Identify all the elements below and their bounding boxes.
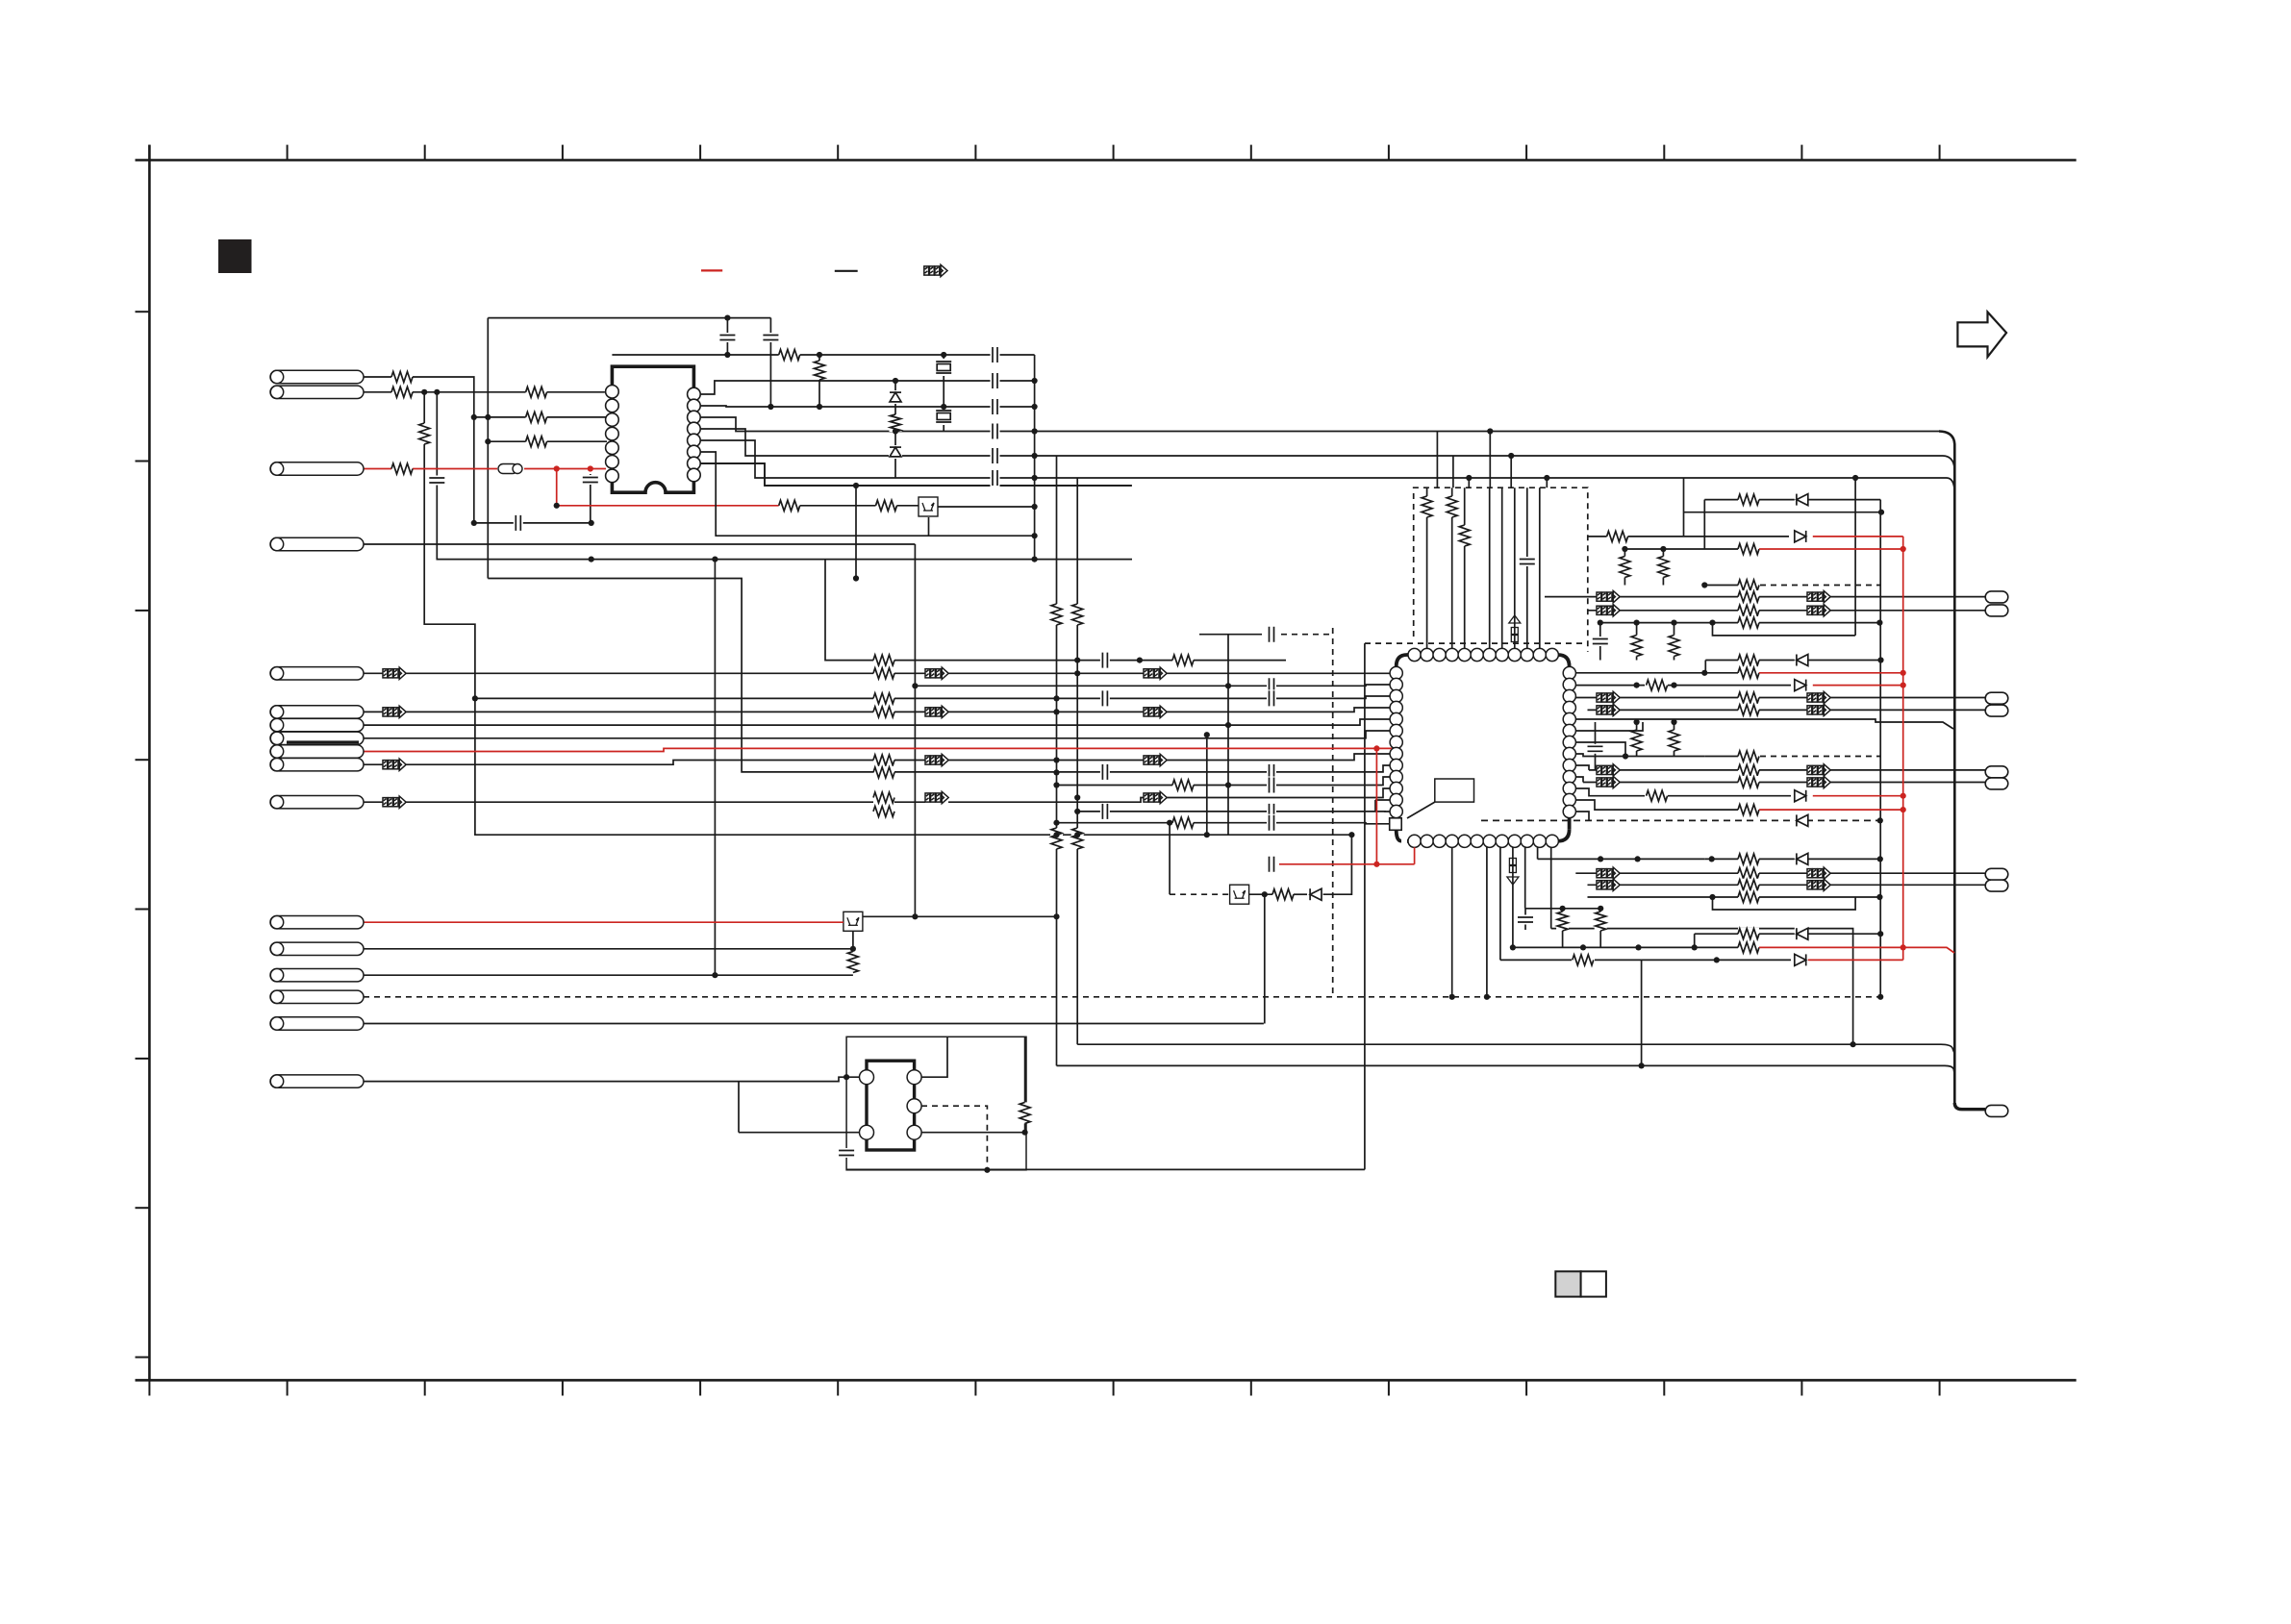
capacitor C16 [1587,744,1604,754]
resistor R51 [846,952,859,973]
wire [1813,685,1903,687]
wire [714,560,716,976]
wire [1588,884,1986,886]
wire [921,1037,947,1077]
wire [1332,628,1334,997]
wire [364,672,1392,674]
signal arrow A8 [1144,792,1167,803]
resistor R28 [1738,604,1759,616]
resistor R21 [1738,493,1759,506]
wire [1525,145,1527,161]
junction [1373,862,1379,867]
wire [136,1357,150,1359]
wire [364,921,843,923]
ic U2 left pins [1390,666,1402,817]
wire [436,559,438,561]
junction [471,414,477,420]
signal arrow A10 [925,707,948,717]
wire [488,440,607,442]
resistor R_B [391,386,413,398]
wire [1407,802,1435,818]
connector P9 [270,969,364,982]
wire [1575,765,1589,770]
capacitor C13 [1519,557,1536,566]
wire [1704,661,1706,673]
junction [1878,510,1884,515]
wire [1250,145,1252,161]
wire [818,355,820,407]
wire [1113,145,1115,161]
signal arrow down [1507,859,1519,886]
junction [434,389,440,395]
junction [724,315,730,321]
resistor R42 [1630,730,1643,751]
wire [1562,909,1564,948]
capacitor C10 [1267,803,1276,820]
wire [1024,1037,1026,1132]
wire [1513,946,1741,948]
wire [1704,585,1756,587]
wire [769,318,771,407]
junction [1635,944,1641,950]
resistor R17 [1446,496,1458,517]
wire [1249,893,1272,895]
junction [1901,793,1906,799]
wire [1703,500,1705,549]
wire [1464,487,1466,655]
junction [1623,753,1628,759]
diode D_a [889,390,902,404]
wire [136,909,150,911]
wire [437,392,1132,560]
signal arrow A6 [1144,707,1167,717]
capacitor C2 [1100,689,1110,707]
resistor R61 [890,414,902,432]
connector P12 [270,1075,364,1087]
signal arrow A26 [1807,868,1830,879]
resistor R4 [873,706,894,718]
wire [136,759,150,761]
junction [893,378,898,384]
wire [1551,929,1853,1045]
wire [1760,756,1880,758]
resistor R14 [1050,828,1063,849]
resistor R_C [391,462,413,475]
diode D6 [1795,813,1808,827]
wire [1250,1380,1252,1395]
capacitor Ca [718,333,736,342]
wire [700,463,1132,486]
connector P4 [270,667,364,680]
junction [1032,533,1038,538]
wire [1512,841,1514,948]
wire [1057,823,1390,824]
wire [1452,456,1454,487]
junction [1714,957,1720,962]
resistor R29 [1738,616,1759,629]
op-amp U1 right pins [688,387,701,482]
junction [485,414,491,420]
wire [1663,145,1665,161]
signal arrow A12 [925,792,948,803]
junction [421,389,427,395]
wire [1374,800,1376,812]
resistor R15 [1071,828,1084,849]
capacitor C4 [1100,803,1110,820]
wire [1575,800,1741,810]
resistor R5 [873,754,894,766]
capacitor C15 [1592,637,1609,646]
ic U3 body [867,1061,915,1150]
wire [1575,754,1704,757]
wire [364,1077,859,1081]
resistor R19 [1556,912,1569,931]
wire [1056,456,1058,1065]
wire [364,731,1392,738]
resistor R22 [1607,530,1628,542]
wire [837,145,839,161]
wire [1704,756,1756,758]
wire [1588,536,1790,537]
ic U2 top pins [1408,648,1558,661]
junction [941,404,946,410]
wire [1468,478,1470,487]
wire bus [1057,1065,1955,1075]
capacitor C1 [1100,652,1110,669]
capacitor C8 [1267,763,1276,781]
capacitor C14 [1517,915,1534,925]
wire [1034,355,1036,560]
junction [588,465,593,471]
connector P5c [270,732,364,744]
junction [1692,944,1698,950]
junction [1634,719,1640,725]
wire [921,1106,987,1170]
junction [1449,994,1455,1000]
capacitor C23 [991,423,1000,440]
resistor R39 [1738,776,1759,788]
junction [1074,832,1080,837]
signal arrow A20 [1807,705,1830,715]
signal arrow A15 [1597,605,1620,615]
wire [612,354,1034,356]
diode D7 [1795,852,1808,865]
wire [1489,487,1491,655]
junction [912,913,918,919]
red to rail [1903,947,1954,953]
wire [1704,858,1880,860]
connector P7 [270,916,364,929]
wire [1481,819,1756,821]
wire [424,145,426,161]
junction [817,352,822,358]
wire [474,522,592,524]
wire [1759,809,1903,811]
signal arrow A17 [1597,692,1620,703]
wire [1854,478,1856,636]
junction [1032,404,1038,410]
wire [1902,537,1904,961]
wire [837,1380,839,1395]
wire [136,1379,2077,1382]
junction [912,683,918,688]
wire [1524,841,1526,909]
diode D8 [1795,927,1808,940]
wire [488,317,770,319]
connector P1a [270,370,364,383]
signal arrow A19 [1597,705,1620,715]
wire [1451,841,1453,997]
junction [1348,832,1354,837]
junction [1901,670,1906,676]
wire [700,429,1943,456]
wire [1662,549,1664,586]
wire [1575,672,1741,674]
ic U2 body [1397,655,1570,841]
junction [1634,683,1640,688]
wire [136,1207,150,1209]
connector output pair 2 [1985,692,2008,704]
resistor R24 [1619,557,1631,578]
wire [1526,487,1528,655]
junction [1877,994,1883,1000]
wire output feed [1954,1103,1985,1110]
junction [1373,745,1379,751]
junction [1877,931,1883,937]
crystal X2 [935,408,952,425]
wire [1537,841,1539,860]
resistor R53 [779,499,800,512]
resistor R49 [1738,941,1759,954]
legend box white [1581,1271,1606,1296]
wire [1939,1380,1941,1395]
wire [1588,610,1986,612]
wire [1683,478,1685,537]
capacitor C6 [1267,677,1276,694]
junction [1053,820,1059,826]
wire [1674,623,1675,661]
junction [1032,428,1038,434]
wire [1364,643,1366,1169]
wire [1500,959,1572,961]
wire [1451,487,1453,655]
junction [712,557,718,562]
wire [1227,635,1229,836]
signal arrow A21 [1597,764,1620,775]
junction [853,483,859,488]
connector P2 [270,462,364,475]
ic U2 pin1 pad [1390,818,1402,831]
junction [1032,557,1038,562]
wire [1575,685,1645,687]
junction [1053,913,1059,919]
wire [590,474,592,523]
signal arrow A14 [1807,591,1830,602]
resistor R6 [873,766,894,779]
wire [1599,909,1601,948]
resistor R10 [1172,779,1194,791]
wire [700,452,1035,536]
junction [554,503,560,509]
wire [1486,841,1488,997]
junction [1901,546,1906,552]
junction [1701,670,1707,676]
wire [136,311,150,312]
junction [1580,944,1586,950]
wire [474,416,607,418]
junction [1074,794,1080,800]
crystal X1 [935,359,952,376]
resistor R62 [1019,1102,1031,1123]
wire [1575,872,1985,874]
capacitor C9 [1267,777,1276,794]
junction [485,438,491,444]
junction [724,352,730,358]
junction [1877,817,1883,823]
signal arrow A16 [1807,605,1830,615]
wire [1524,909,1526,930]
filter bead FB1 [497,463,524,475]
resistor R20 [1595,912,1607,931]
resistor R34 [1647,679,1668,691]
junction [1877,657,1883,662]
junction [893,428,898,434]
junction [1053,769,1059,775]
junction [768,404,773,410]
capacitor C5 [1267,626,1276,643]
wire [1813,536,1903,537]
wire bus [1077,1044,1954,1054]
resistor R18 [1458,525,1471,546]
wire [136,159,2077,162]
wire [1636,623,1638,661]
resistor R40 [1647,789,1668,802]
resistor R54 [876,499,897,512]
junction [941,352,946,358]
wire [364,996,1880,998]
wire [726,318,728,355]
wire [1414,847,1416,864]
junction [1053,709,1059,714]
junction [1225,722,1231,728]
junction [1598,620,1603,626]
wire [1101,765,1392,772]
junction [1484,994,1490,1000]
junction [1876,894,1882,900]
resistor R47 [1738,891,1759,904]
resistor R13 [1071,604,1084,625]
signal arrow A23 [1597,777,1620,787]
ic U3 pins [860,1070,922,1140]
connector output pair 3 [1985,766,2008,778]
wire [1624,549,1625,586]
junction [1510,944,1516,950]
diode D4 [1795,679,1808,692]
resistor R48 [1738,928,1759,940]
wire [1076,478,1078,1044]
wire [1684,512,1882,513]
wire [1713,897,1856,910]
junction [1225,683,1231,688]
junction [1053,757,1059,762]
wire [699,1380,701,1395]
wire [1264,894,1266,1023]
wire [364,543,915,545]
resistor R55 [526,386,547,398]
junction [1022,1130,1028,1136]
signal arrow A28 [1807,880,1830,890]
wire [1813,795,1903,797]
resistor R43 [1668,730,1680,751]
wire [1636,722,1638,757]
junction [1709,856,1715,862]
resistor R36 [1738,704,1759,716]
wire [519,468,606,470]
capacitor C26 [838,1148,855,1158]
junction [1032,453,1038,459]
capacitor C20 [991,346,1000,363]
op-amp U1 body [612,366,693,492]
wire [1169,823,1171,895]
capacitor C19 [514,514,523,532]
resistor R38 [1738,763,1759,776]
resistor R7 [873,791,894,804]
resistor R60 [814,361,826,380]
resistor R30 [1630,636,1643,657]
wire [1695,933,1881,935]
wire [1595,959,1791,961]
wire [1939,145,1941,161]
connector P5d [270,745,364,758]
wire [738,1082,740,1133]
wire [700,463,1131,486]
capacitor C3 [1100,763,1110,781]
wire [1388,145,1390,161]
wire [1414,487,1588,652]
capacitor C18 [582,475,599,485]
junction [1709,620,1715,626]
wire [1525,1380,1527,1395]
junction [1225,782,1231,787]
junction [1622,546,1627,552]
junction [1074,658,1080,663]
junction [554,465,560,471]
capacitor C22 [991,398,1000,415]
wire [1525,908,1601,910]
ic U3 outer box [846,1037,1026,1170]
resistor R31 [1668,636,1680,657]
wire [1545,596,1985,598]
wire [557,469,783,506]
resistor R41 [1738,804,1759,816]
resistor R1 [873,654,894,666]
wire [1705,660,1880,662]
section marker square [218,239,252,273]
wire [424,1380,426,1395]
ic U2 bottom pins [1408,835,1558,847]
ic U2 flag [1435,779,1474,802]
capacitor C11 [1267,814,1276,832]
wire [974,1380,976,1395]
signal arrow A3 [383,760,406,770]
junction [1544,475,1549,481]
wire [1323,835,1352,894]
wire [1760,585,1880,587]
wire [1600,622,1880,624]
wire [1641,960,1643,1065]
ic U2 right pins [1563,666,1575,817]
signal arrow A18 [1807,692,1830,703]
